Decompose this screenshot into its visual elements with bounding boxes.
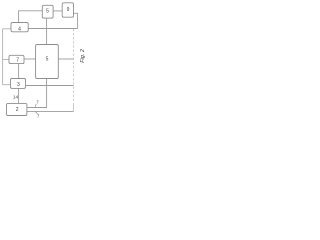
wire: central box bottom down, left into box2 [27,79,47,108]
wire: box14 right, down to long bus [74,13,78,28]
wire: left rail [2,29,4,85]
box 3 (left column) [11,79,26,89]
box 14 (top-right) [62,3,73,17]
box 13 (top-middle) [42,5,53,18]
wire: rail stub into box 4 [3,28,11,30]
wire: box7 bottom to box3 top [18,64,20,79]
wire: long horizontal bus [28,28,77,30]
wire: bottom output line from box2 [27,110,74,112]
background [0,0,89,120]
svg-text:14: 14 [13,95,19,100]
wire: dashed vertical line [73,29,75,104]
wire: box4 top up and right to box13 [19,11,43,23]
svg-text:2: 2 [16,107,19,113]
wire: box13 bottom down to central box top [46,18,48,44]
leader tick for lower label 7 [35,112,37,114]
box 2 (bottom-left) [7,103,27,115]
svg-text:7: 7 [16,57,19,63]
wire: box3 bottom to box2 top [18,88,20,103]
wire: box3 right long line to dashed line [26,85,74,87]
svg-text:9: 9 [67,7,70,13]
box 7 (left column) [9,55,24,63]
wire: box13 to box14 [53,10,62,12]
wire: rail stub into box 3 [3,84,11,86]
wire: rail stub into box 7 [3,59,9,61]
svg-text:4: 4 [18,26,21,32]
box 4 (top-left) [11,23,28,32]
wire: dashed line solid tail [73,104,75,112]
wire: central box right to dashed line [58,58,73,60]
svg-text:Fig. 2: Fig. 2 [80,49,86,63]
wire: box7 right into central box [24,58,36,60]
svg-text:5: 5 [46,9,49,15]
leader tick for upper label 7 [35,104,36,107]
box 5 (central) [36,45,59,79]
svg-text:5: 5 [46,57,49,63]
svg-text:3: 3 [17,82,20,88]
